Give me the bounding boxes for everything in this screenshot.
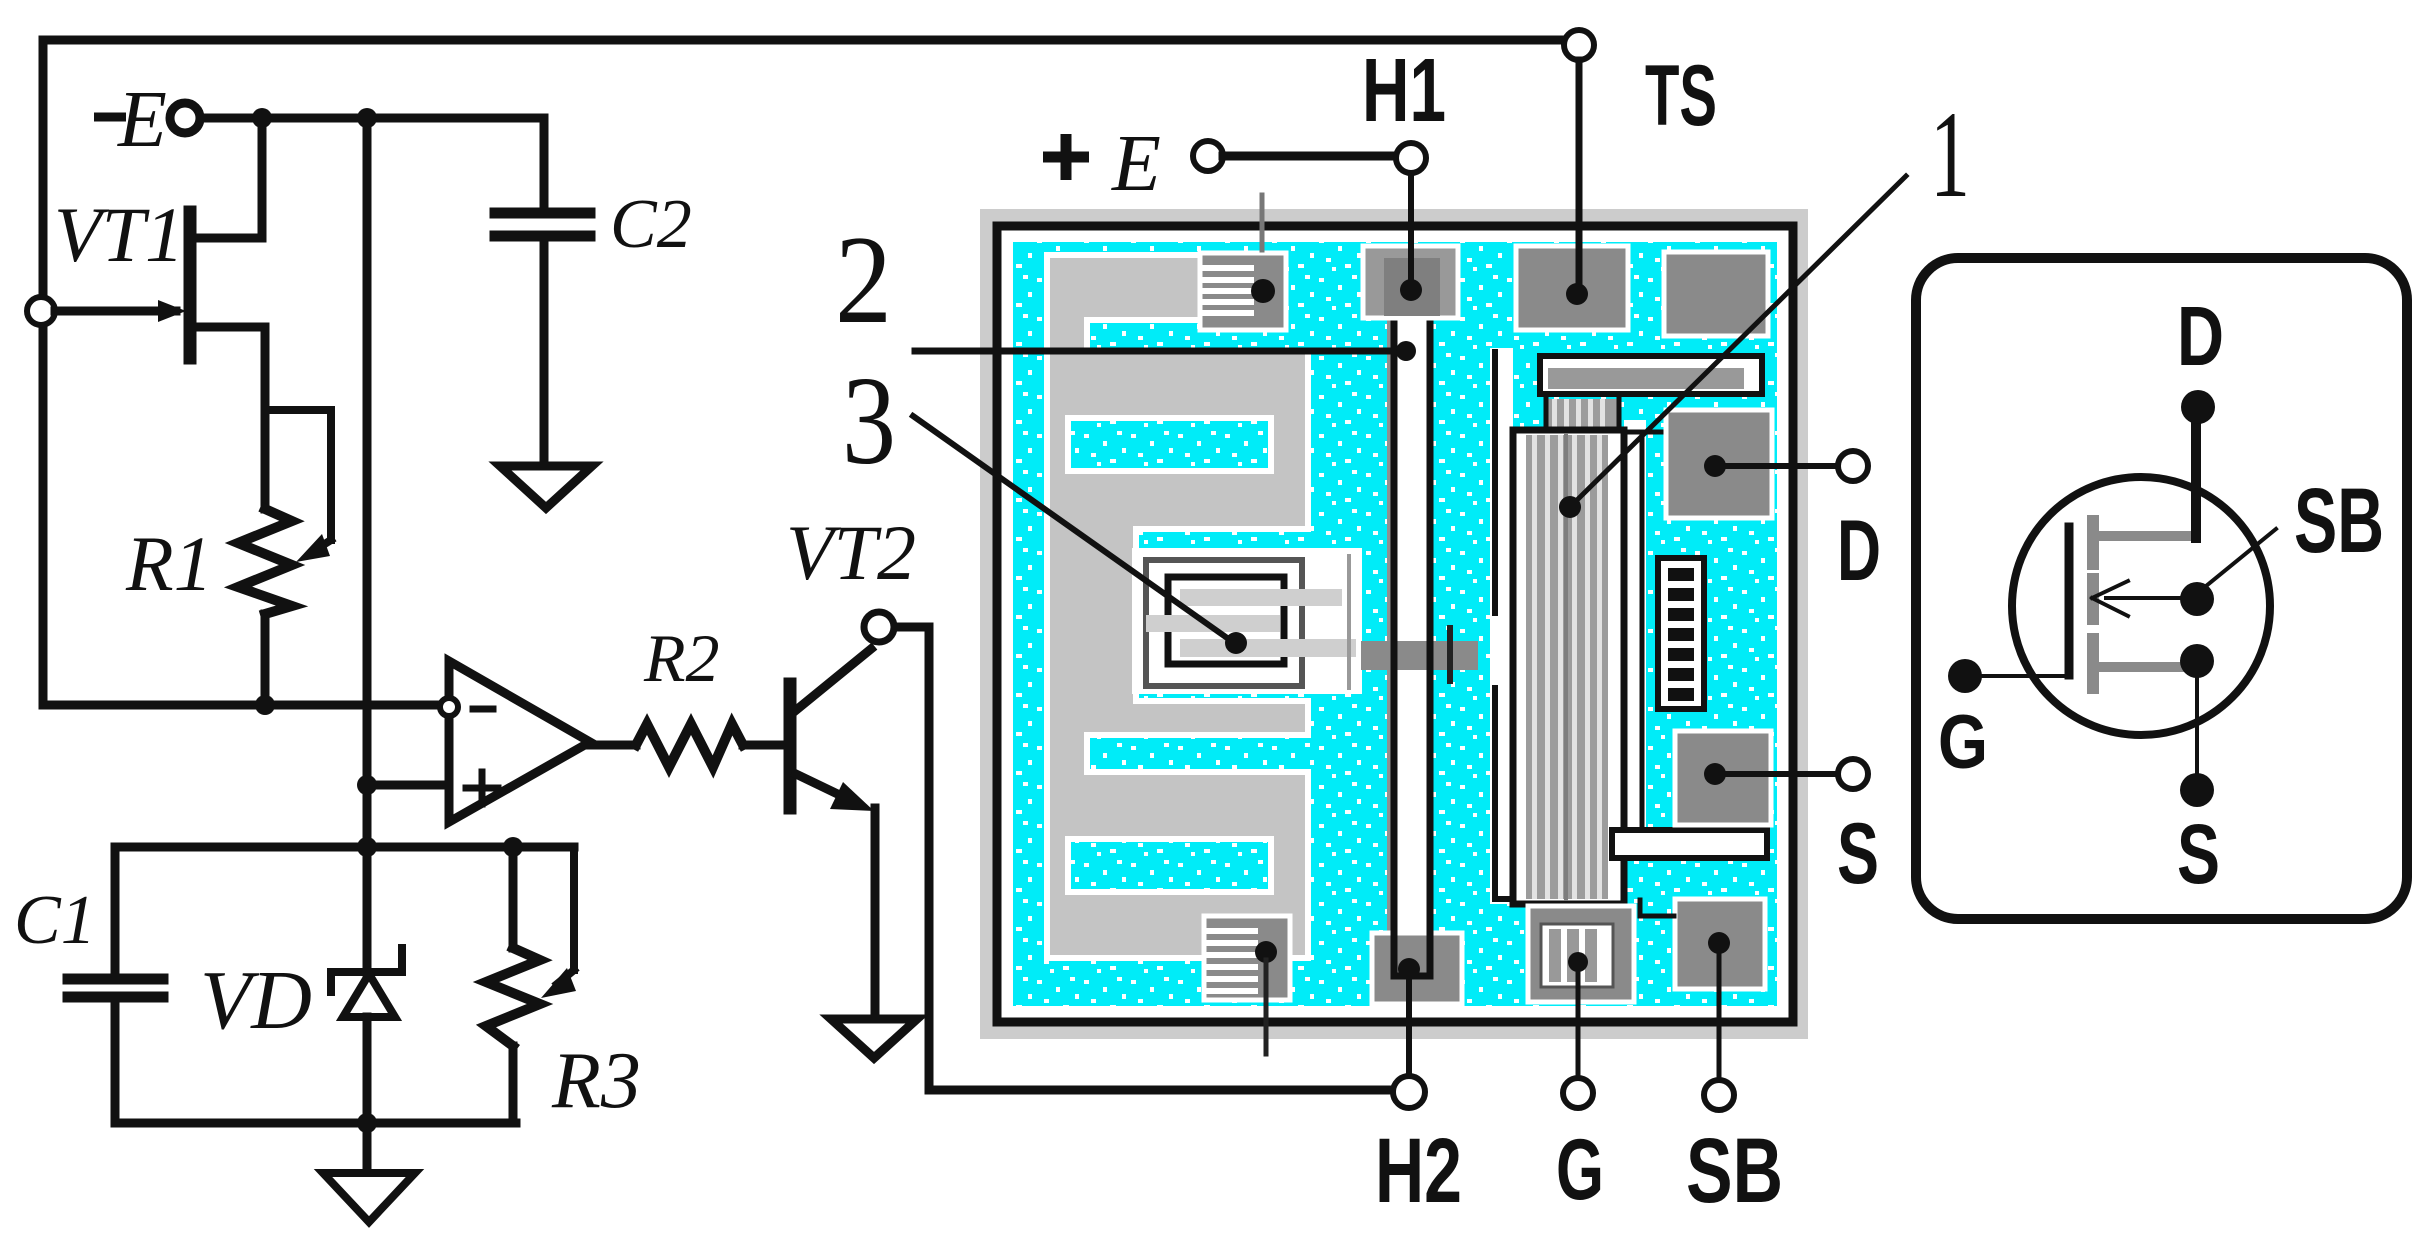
node junction dot ground [357,1113,377,1133]
wire S pad to terminal [1715,771,1838,777]
wire op-amp output [588,741,636,750]
pad TS contact dot [1566,283,1588,305]
svg-text:R2: R2 [643,620,720,696]
mosfet symbol channel segment bottom [2087,639,2099,688]
wire VT1 source [192,327,265,509]
terminal D open circle [1838,451,1868,481]
wire bottom horizontal to op-amp inverting input [43,701,443,710]
svg-text:S: S [2177,807,2220,901]
ground under C2 [500,466,592,508]
terminal TS open circle [1564,30,1594,60]
node VT2 collector open circle [864,612,894,642]
svg-text:D: D [2177,289,2224,383]
wire VD rail lower [363,1017,372,1123]
terminal -E open circle [170,103,200,133]
pad G inner bars [1549,929,1597,982]
spiral sensor white halo [1132,548,1362,694]
pad S contact dot [1704,763,1726,785]
terminal D dot [2181,390,2215,424]
spiral sensor bar 3 [1180,639,1356,657]
diode VD zener bar [331,948,402,992]
svg-text:3: 3 [842,352,896,491]
terminal +E open circle [1193,141,1223,171]
terminal G dot [1948,659,1982,693]
capacitor C1 plates [68,979,163,997]
callout dot 2 [1396,341,1416,361]
mosfet symbol channel segment mid [2087,579,2099,619]
mosfet core left white channel [1490,348,1513,904]
transistor VT2 emitter arrowhead [830,782,874,811]
chip die cyan field [1013,242,1777,1006]
node op-amp inverting input open circle [440,698,458,716]
capacitor C2 top wire [540,118,549,208]
transistor VT2 collector diagonal [795,649,871,711]
node junction dot rail top of VD [357,837,377,857]
beam white band [1397,300,1428,975]
spiral sensor outer gray frame [1146,560,1302,686]
terminal H2 open circle [1393,1076,1425,1108]
diode VD triangle [343,974,395,1017]
wire drain vertical [2191,407,2201,538]
pad H2 [1372,933,1462,1004]
svg-text:G: G [1938,700,1988,785]
capacitor C2 plates [495,213,590,236]
wire R2 to VT2 base [743,741,784,750]
wire TS down into chip [1576,60,1583,294]
node junction dot R1 bottom [255,695,275,715]
cross link black bracket [1447,628,1453,681]
svg-text:D: D [1837,503,1881,599]
beam black U lines [1394,268,1430,976]
wire H1 down into chip [1408,173,1414,290]
pad hatched top contact dot [1251,279,1275,303]
pad G contact dot [1568,952,1588,972]
svg-text:R3: R3 [551,1037,641,1125]
svg-text:H2: H2 [1375,1120,1462,1222]
meander slot speckles [1068,418,1271,471]
callout line 1 [1574,176,1906,503]
resistor R3 top wire [509,847,518,948]
resistor R1 wiper arrow [312,540,331,552]
transistor VT2 base bar [784,684,797,808]
pad hatched top [1200,253,1286,330]
wire VT2 collector to H2 [895,627,1392,1090]
resistor R1 zigzag [238,509,292,614]
wire VD rail upper [363,847,372,972]
chip die black border [997,226,1793,1022]
transistor VT1 gate arrow [158,300,186,322]
capacitor C1 top wire [111,847,120,974]
terminal SB dot [2180,582,2214,616]
mosfet symbol channel segment top [2087,521,2099,564]
pad TS [1516,246,1628,330]
wire block bottom [115,1119,516,1128]
mosfet core gray fill [1526,435,1608,899]
capacitor C2 bottom wire [540,241,549,465]
svg-text:H1: H1 [1362,41,1446,141]
transistor VT1 channel bar [184,212,197,358]
pad D contact dot [1704,455,1726,477]
beam gray line [1387,310,1391,965]
wire VT2 emitter to ground [871,808,880,1016]
node junction dot A [252,108,272,128]
terminal S open circle [1838,759,1868,789]
pad S [1675,731,1771,825]
node junction dot op-amp noninverting [357,775,377,795]
terminal H1 open circle [1396,143,1426,173]
svg-text:1: 1 [1930,86,1970,223]
pad SB [1675,899,1765,989]
pad H1 [1363,246,1458,318]
wire VT1 drain [192,118,262,238]
mosfet left boundary line [1495,352,1513,899]
wire from -E to C2 branch [201,114,544,123]
capacitor C1 bottom wire [111,1002,120,1123]
svg-text:R1: R1 [125,520,213,607]
resistor R1 wiper arrowhead [296,534,330,562]
pad D [1666,410,1772,518]
pad G [1528,906,1634,1002]
transistor VT2 emitter diagonal [796,774,850,800]
resistor R3 wiper arrow [557,970,574,984]
mosfet core light stripes [1532,435,1602,899]
chip die outer shadow frame [980,209,1808,1039]
wire H1 into pad [1408,240,1414,290]
wire D pad to terminal [1715,463,1838,469]
pad SB contact dot [1708,932,1730,954]
wire left vertical rail [39,40,48,705]
svg-text:G: G [1556,1122,1604,1218]
wire SB link left [1640,900,1674,916]
meander slot5 cyan cutout [1068,839,1271,892]
node gate input open circle [27,297,55,325]
resistor R3 zigzag [486,948,540,1046]
callout line 2 [915,348,1400,355]
op-amp minus sign [473,706,493,713]
wire R1 bottom [261,614,270,705]
callout dot 1 [1559,496,1581,518]
node junction dot R3 top [503,837,523,857]
svg-text:E: E [1111,120,1161,208]
beam U into H2 pad [1394,930,1430,976]
callout dot 3 [1225,632,1247,654]
mosfet top bar inner gray [1548,368,1744,389]
svg-text:C1: C1 [14,882,96,959]
wire bulk thin with arrow [2106,596,2181,600]
wire gate thin horizontal [1979,674,2066,678]
ladder contact column [1658,558,1704,709]
svg-text:VD: VD [200,954,312,1047]
svg-text:2: 2 [835,211,892,350]
mosfet core right white channel [1624,420,1646,845]
wire +E to H1 [1223,152,1396,161]
cross link gray bar [1361,641,1478,670]
chip die speckle texture [1013,242,1777,1006]
op-amp plus sign [466,772,498,804]
svg-text:S: S [1837,806,1879,902]
wire R1 wiper bracket [267,410,331,540]
meander slot2 cyan cutout [1068,418,1271,471]
pad H2 contact dot [1398,958,1420,980]
mosfet bulk arrowhead [2092,581,2128,616]
mosfet top bar [1540,356,1762,394]
wire ground stem [363,1123,372,1172]
ground under VT2 [831,1019,917,1058]
mosfet symbol circle [2012,477,2270,735]
meander serpentine heater [1047,255,1308,958]
panel rounded box [1916,258,2407,919]
mosfet symbol drain stub gray [2098,531,2194,541]
pad hatched bottom [1204,916,1290,1000]
wire source thin vertical [2195,661,2199,790]
pad hatched top probe line [1260,195,1265,250]
ground main [323,1173,415,1222]
node source circle dot [2180,644,2214,678]
pad G inner window [1541,924,1613,987]
resistor R3 bottom wire [509,1046,518,1123]
svg-text:SB: SB [1686,1120,1783,1222]
wire R3 wiper bracket [570,849,578,970]
svg-text:VT1: VT1 [54,191,184,278]
wire H2 pad down [1406,978,1412,1075]
node junction dot B [357,108,377,128]
callout line 3 [913,416,1230,640]
mosfet source link bar [1612,830,1767,858]
spiral sensor right thin line [1347,556,1351,688]
pad hatched bottom probe line [1264,960,1269,1054]
pad H1 inner [1384,258,1440,316]
wire G pad down [1576,970,1581,1078]
terminal G open circle [1563,1078,1593,1108]
pad hatched bottom contact dot [1255,941,1277,963]
svg-text:C2: C2 [610,186,692,263]
mosfet core body [1513,430,1624,904]
pad H1 contact dot [1400,279,1422,301]
spiral sensor bar 1 [1180,589,1342,606]
wire main center rail [363,118,372,847]
terminal S dot [2180,773,2214,807]
wire top rail from left edge to TS terminal [43,36,1564,45]
terminal SB open circle [1704,1080,1734,1110]
mosfet symbol gate bar [2065,527,2074,675]
resistor R3 wiper arrowhead [541,968,576,998]
wire SB pad down [1717,950,1722,1080]
spiral sensor inner black frame [1168,577,1284,664]
svg-text:TS: TS [1645,48,1717,144]
wire op-amp noninverting input [367,781,449,790]
pad corner top-right [1664,252,1768,336]
mosfet cap stripes [1544,399,1621,430]
svg-text:VT2: VT2 [786,509,916,596]
spiral sensor bar 2 [1146,615,1280,632]
wire C1 VD R3 top [115,843,574,852]
resistor R2 zigzag [636,724,743,767]
op-amp U1 triangle [449,661,590,822]
mosfet right boundary line [1624,432,1664,841]
wire VT1 gate [55,307,176,316]
callout SB thin diagonal [2206,529,2276,586]
mosfet symbol source stub gray [2098,662,2182,672]
svg-text:SB: SB [2294,470,2384,572]
